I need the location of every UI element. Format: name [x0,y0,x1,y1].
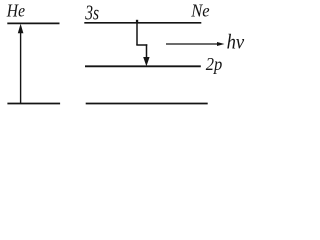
svg-text:hν: hν [227,30,245,54]
svg-text:He: He [6,0,25,20]
svg-text:2p: 2p [206,54,223,74]
svg-text:Ne: Ne [190,1,209,21]
svg-text:3s: 3s [84,1,99,25]
